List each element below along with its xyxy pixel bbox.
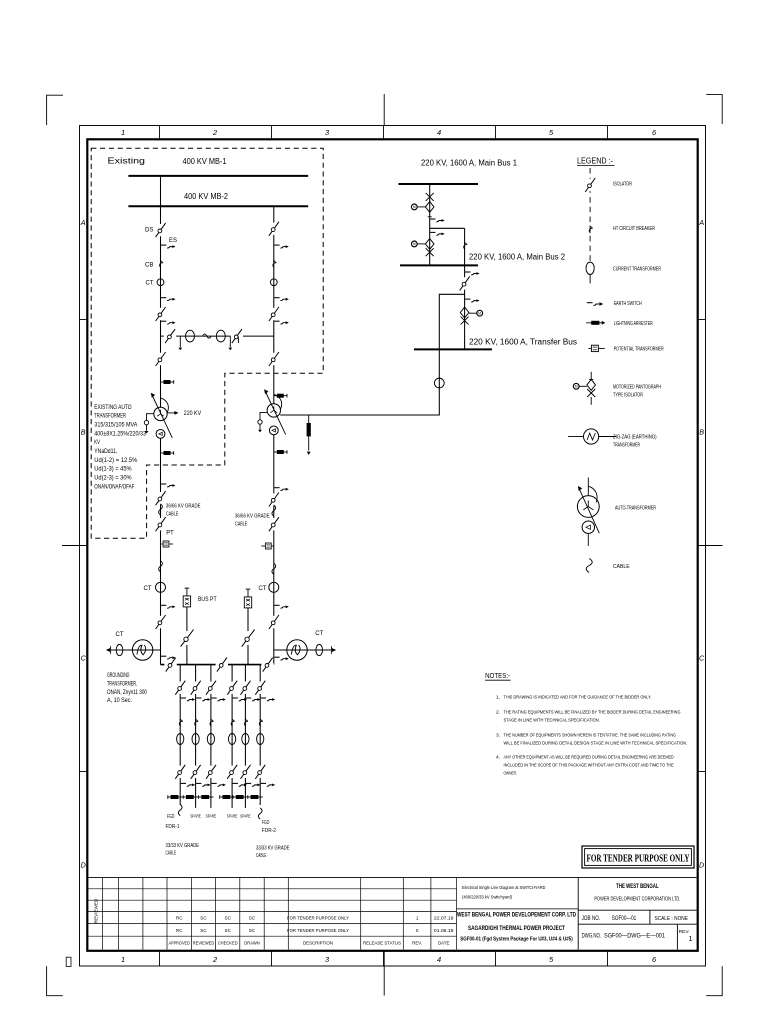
isolator feeder 4 (upper) — [231, 682, 233, 694]
isolator (right feeder top) — [273, 223, 275, 235]
svg-text:SPARE: SPARE — [206, 814, 217, 819]
isolator (right feeder below tie) — [273, 353, 275, 365]
earth switch above P3 — [465, 298, 470, 300]
svg-text:FGD: FGD — [167, 814, 175, 820]
lightning arrester (right feeder, above transformer) — [274, 395, 287, 397]
lightning arrester feeder 5 — [233, 796, 248, 798]
isolator on tie line (left) — [164, 335, 176, 337]
lightning arrester (left feeder, above transformer) — [161, 381, 174, 383]
bus 220 KV Transfer Bus — [414, 348, 492, 350]
zone tick marks top edge — [159, 126, 161, 140]
isolator (left feeder mid) — [159, 308, 161, 320]
current transformer feeder 6 — [257, 734, 264, 745]
title cell: company — [577, 877, 579, 949]
svg-text:CABLE: CABLE — [613, 564, 630, 570]
svg-text:CT: CT — [146, 280, 154, 287]
svg-text:Ud(2-3) = 30%: Ud(2-3) = 30% — [94, 474, 132, 481]
breaker tick on second riser — [464, 242, 468, 249]
svg-text:SC: SC — [249, 916, 256, 921]
svg-text:A, 10 Sec.: A, 10 Sec. — [107, 698, 132, 704]
stamp FOR TENDER PURPOSE ONLY — [582, 846, 694, 868]
220 KV arrow stub of T1 — [167, 412, 176, 414]
svg-text:FDR-1: FDR-1 — [166, 824, 180, 830]
svg-text:2: 2 — [212, 128, 217, 137]
svg-text:A: A — [698, 218, 704, 227]
svg-text:SC: SC — [200, 928, 207, 933]
svg-text:THE RATING EQUIPMENTS WILL BE: THE RATING EQUIPMENTS WILL BE FINALIZED … — [504, 710, 681, 716]
legend motorized pantograph isolator symbol — [590, 372, 592, 380]
tap changer symbol of T1 — [147, 414, 154, 421]
zone tick marks bottom edge — [159, 951, 161, 967]
earth switch feeder 1 (lower) — [181, 782, 186, 784]
isolator feeder 3 (lower) — [210, 766, 212, 778]
svg-text:DS: DS — [145, 227, 154, 234]
earth switch feeder 4 (lower) — [233, 782, 238, 784]
lightning arrester feeder 1 — [168, 796, 183, 798]
earth switch below T1 — [161, 483, 166, 485]
svg-text:ONAN/ONAF/OFAF: ONAN/ONAF/OFAF — [94, 483, 134, 490]
svg-text:CHECKED: CHECKED — [218, 940, 238, 946]
svg-text:THIS DRAWING IS INDICATED AND: THIS DRAWING IS INDICATED AND FOR THE GU… — [504, 695, 652, 701]
svg-text:Existing: Existing — [108, 157, 146, 166]
current transformer feeder 2 — [192, 734, 199, 745]
svg-text:FOR TENDER PURPOSE ONLY: FOR TENDER PURPOSE ONLY — [587, 853, 690, 864]
current transformer grounding left — [116, 644, 123, 655]
sheet center crop mark top — [383, 94, 385, 126]
current transformer feeder 4 — [229, 734, 236, 745]
earth switch feeder 5 (lower) — [246, 782, 251, 784]
svg-text:2: 2 — [212, 955, 217, 964]
vertical label REVIEWED — [93, 898, 98, 923]
isolator DS — [159, 224, 161, 236]
svg-text:HT CIRCUIT BREAKER: HT CIRCUIT BREAKER — [613, 226, 655, 232]
current transformer on 220kV riser — [434, 378, 444, 388]
isolator feeder 5 (upper) — [244, 682, 246, 694]
current transformer right 33kV — [269, 582, 279, 592]
isolator below bus PT left — [186, 631, 188, 645]
lightning arrester below T2 — [274, 451, 287, 453]
svg-text:SC: SC — [225, 916, 232, 921]
title cell: job no / scale — [578, 909, 696, 911]
isolator below T2 (upper) — [273, 493, 275, 505]
current transformer CT (left feeder) — [157, 279, 164, 286]
isolator below T2 (lower) — [273, 518, 275, 530]
svg-text:DWG.NO.: DWG.NO. — [582, 934, 602, 940]
svg-text:SPARE: SPARE — [240, 814, 251, 819]
earth switch below P1 — [430, 218, 435, 220]
svg-text:0: 0 — [416, 928, 419, 933]
svg-text:AUTO-TRANSFORMER: AUTO-TRANSFORMER — [615, 506, 656, 512]
svg-text:THE WEST BENGAL: THE WEST BENGAL — [616, 883, 659, 890]
svg-text:400 KV MB-2: 400 KV MB-2 — [184, 191, 228, 201]
svg-text:Ud(1-2) = 12.5%: Ud(1-2) = 12.5% — [94, 457, 138, 464]
isolator below T1 (upper) — [159, 492, 161, 504]
svg-text:POTENTIAL TRANSFORMER: POTENTIAL TRANSFORMER — [614, 346, 664, 352]
isolator feeder 6 (upper) — [259, 682, 261, 694]
svg-text:220 KV: 220 KV — [184, 410, 202, 417]
svg-text:4: 4 — [437, 955, 441, 964]
sheet corner crop mark top-right — [706, 95, 722, 124]
lightning arrester below T1 — [161, 452, 174, 454]
svg-text:REVIEWED: REVIEWED — [193, 940, 215, 946]
lightning arrester with earth arrow on 220kV line — [308, 415, 310, 423]
circuit breaker CB — [160, 260, 164, 267]
svg-text:RC: RC — [176, 928, 183, 933]
bus 400 KV MB-2 — [128, 205, 308, 207]
title block vertical lines (left tables) — [101, 877, 103, 949]
lightning arrester feeder 4 — [220, 796, 235, 798]
svg-text:33/33 KV GRADE: 33/33 KV GRADE — [166, 843, 200, 849]
wire 33kV feeder 5 vertical — [244, 665, 246, 808]
svg-text:CURRENT TRANSFORMER: CURRENT TRANSFORMER — [613, 266, 661, 272]
svg-text:1: 1 — [121, 128, 125, 137]
earth switch feeder 2 (lower) — [196, 782, 201, 784]
svg-text:DESCRIPTION: DESCRIPTION — [303, 940, 333, 946]
earth switch left at bus corner — [161, 655, 166, 657]
svg-text:SGF00—DWG—E—001: SGF00—DWG—E—001 — [604, 934, 666, 940]
wire jog to second riser — [430, 227, 465, 229]
cable squiggle left (lower) — [159, 561, 163, 572]
svg-text:RC: RC — [176, 916, 183, 921]
lightning arrester feeder 6 — [248, 796, 263, 798]
isolator feeder 2 (upper) — [194, 682, 196, 694]
sheet corner crop mark top-left — [47, 95, 63, 125]
current transformer feeder 3 — [207, 734, 214, 745]
svg-text:2.: 2. — [496, 710, 500, 716]
wire right 400kV feeder vertical — [273, 206, 275, 403]
bus 400 KV MB-1 — [128, 175, 308, 177]
wire 33kV feeder 3 vertical — [210, 665, 212, 808]
svg-text:ANY OTHER EQUIPMENT AS WILL BE: ANY OTHER EQUIPMENT AS WILL BE REQUIRED … — [504, 755, 675, 761]
bus PT right — [246, 588, 251, 590]
svg-text:A: A — [80, 218, 86, 227]
circuit breaker feeder 5 — [244, 719, 248, 726]
isolator feeder 3 (upper) — [210, 682, 212, 694]
svg-text:220 KV, 1600 A, Transfer Bus: 220 KV, 1600 A, Transfer Bus — [469, 338, 577, 347]
earth switch left 33kV — [161, 604, 166, 606]
circuit breaker (right feeder) — [273, 260, 277, 267]
bus 33 kV — [161, 664, 274, 666]
cable squiggle feeder 1 — [178, 804, 182, 815]
wire 33kV feeder 1 vertical — [179, 665, 181, 805]
earth switch feeder 6 (lower) — [261, 782, 266, 784]
earth switch feeder 3 (upper) — [211, 697, 216, 699]
sheet center crop mark bottom — [383, 951, 385, 996]
svg-text:1: 1 — [688, 934, 692, 943]
svg-text:APPROVED: APPROVED — [168, 940, 190, 946]
cable squiggle below T1 — [159, 504, 163, 515]
Existing area dashed boundary — [91, 148, 323, 538]
isolator below Main Bus 2 — [463, 277, 465, 289]
earth switch (left feeder upper) — [161, 244, 166, 246]
earth switch (right feeder lower) — [274, 320, 279, 322]
wire bus coupler vertical — [429, 184, 431, 265]
earthing stub with arrow (tie line left) — [179, 336, 181, 347]
svg-text:FGD: FGD — [262, 820, 270, 826]
svg-text:36/66 KV GRADE: 36/66 KV GRADE — [235, 514, 270, 520]
legend auto-transformer symbol — [587, 478, 589, 496]
svg-text:EARTH SWITCH: EARTH SWITCH — [614, 301, 642, 307]
svg-text:CT: CT — [144, 585, 152, 592]
cable squiggle right (lower) — [272, 563, 276, 574]
isolator on 33kV bus (left) — [164, 663, 176, 665]
svg-text:1: 1 — [416, 916, 419, 921]
svg-text:3.: 3. — [496, 733, 500, 739]
earth switch feeder 3 (lower) — [211, 782, 216, 784]
svg-text:GROUNDING: GROUNDING — [107, 673, 130, 679]
title cell: drawing title — [457, 908, 579, 910]
svg-text:33/33 KV GRADE: 33/33 KV GRADE — [256, 846, 290, 852]
wire below transformer T2 — [273, 435, 275, 665]
tap changer symbol of T2 — [260, 412, 267, 419]
svg-text:CABLE: CABLE — [256, 853, 267, 859]
isolator below bus PT right — [247, 631, 249, 645]
wire second riser vertical — [464, 228, 466, 349]
svg-text:M: M — [478, 311, 481, 315]
svg-text:CT: CT — [259, 585, 267, 592]
wire left 400kV feeder vertical — [160, 176, 162, 407]
svg-text:B: B — [81, 428, 86, 437]
svg-text:4: 4 — [437, 128, 441, 137]
svg-text:YNaDd11,: YNaDd11, — [94, 448, 117, 455]
svg-text:(400/220/33 kV Switchyard): (400/220/33 kV Switchyard) — [462, 894, 512, 900]
title block horizontal lines — [87, 876, 696, 878]
svg-text:CB: CB — [145, 261, 154, 268]
cable squiggle on tie line — [203, 334, 212, 338]
svg-text:FDR-2: FDR-2 — [262, 828, 276, 834]
svg-text:400 KV MB-1: 400 KV MB-1 — [183, 156, 227, 166]
wire below transformer T1 — [160, 439, 162, 665]
svg-text:STAGE IN LINE WITH TECHNICAL S: STAGE IN LINE WITH TECHNICAL SPECIFICATI… — [504, 718, 600, 724]
current transformer left 33kV — [156, 582, 166, 592]
legend earth switch symbol — [587, 302, 593, 304]
svg-text:SGF00-01 (Fgd System Package F: SGF00-01 (Fgd System Package For U#3, U#… — [460, 936, 573, 942]
earth switch (left feeder mid) — [161, 297, 166, 299]
svg-text:C: C — [699, 654, 705, 663]
legend isolator symbol — [589, 179, 591, 191]
circuit breaker feeder 3 — [210, 719, 214, 726]
svg-text:LIGHTNING ARRESTER: LIGHTNING ARRESTER — [614, 321, 653, 327]
earth switch feeder 6 (upper) — [261, 697, 266, 699]
zig-zag grounding transformer right — [287, 640, 307, 660]
svg-text:LEGEND :-: LEGEND :- — [577, 156, 613, 165]
earth switch (left feeder lower) — [161, 320, 166, 322]
svg-text:KV: KV — [94, 439, 100, 446]
svg-text:MOTORIZED PANTOGRAPH: MOTORIZED PANTOGRAPH — [613, 384, 661, 390]
svg-text:TRANSFORMER: TRANSFORMER — [94, 413, 126, 420]
earth switch above P2 — [430, 231, 435, 233]
svg-text:SPARE: SPARE — [227, 814, 238, 819]
svg-text:SC: SC — [225, 928, 232, 933]
potential transformer PT right — [271, 545, 274, 547]
legend zig-zag transformer symbol — [568, 436, 584, 438]
potential transformer PT left — [161, 543, 164, 545]
earth switch feeder 5 (upper) — [246, 697, 251, 699]
svg-text:TYPE ISOLATOR: TYPE ISOLATOR — [613, 392, 643, 398]
wire grounding transformer branch right — [274, 649, 331, 651]
cable squiggle feeder 6 — [258, 808, 262, 819]
earth switch (right feeder upper) — [274, 244, 279, 246]
svg-text:M: M — [413, 205, 416, 209]
svg-text:RELEASE STATUS: RELEASE STATUS — [363, 940, 401, 946]
circuit breaker feeder 6 — [259, 719, 263, 726]
legend lightning arrester symbol — [586, 322, 602, 324]
svg-text:Electrical Single Line Diagram: Electrical Single Line Diagram at SWITCH… — [462, 885, 546, 891]
svg-text:220 KV, 1600 A, Main Bus 2: 220 KV, 1600 A, Main Bus 2 — [469, 253, 565, 262]
wire grounding transformer branch left — [111, 649, 161, 651]
svg-text:1: 1 — [121, 955, 125, 964]
isolator (left feeder below tie) — [159, 353, 161, 365]
legend HT circuit breaker symbol — [589, 226, 593, 233]
wire 33kV feeder 2 vertical — [195, 665, 197, 808]
earth switch feeder 2 (upper) — [196, 697, 201, 699]
svg-text:220 KV, 1600 A, Main Bus 1: 220 KV, 1600 A, Main Bus 1 — [421, 159, 517, 168]
lightning arrester feeder 2 — [183, 796, 198, 798]
svg-text:CT: CT — [315, 630, 323, 637]
svg-text:CT: CT — [116, 631, 124, 638]
circuit breaker feeder 1 — [179, 719, 183, 726]
isolator right 33kV — [273, 616, 275, 628]
current transformer grounding right — [316, 644, 323, 655]
earth switch below Main Bus 2 — [465, 271, 470, 273]
svg-text:SPARE: SPARE — [190, 814, 201, 819]
current transformer on tie line (left) — [186, 330, 195, 342]
svg-text:01.08.18: 01.08.18 — [434, 928, 454, 933]
grounding arrow left — [106, 648, 110, 652]
svg-text:POWER DEVELOPMENT CORPORATION: POWER DEVELOPMENT CORPORATION LTD. — [594, 896, 680, 902]
svg-text:NOTES:-: NOTES:- — [485, 671, 510, 680]
svg-text:22.07.19: 22.07.19 — [434, 916, 454, 921]
isolator feeder 2 (lower) — [194, 766, 196, 778]
circuit breaker feeder 4 — [231, 719, 235, 726]
isolator below T1 (lower) — [159, 518, 161, 530]
svg-text:REV.: REV. — [412, 940, 422, 945]
svg-text:B: B — [699, 428, 704, 437]
motorized pantograph isolator P1 — [426, 193, 434, 201]
current transformer feeder 1 — [177, 734, 184, 745]
lightning arrester feeder 3 — [199, 796, 214, 798]
sheet corner crop mark bottom-right — [706, 966, 722, 995]
svg-text:JOB NO.: JOB NO. — [582, 916, 601, 922]
legend dashed stem — [589, 168, 591, 262]
svg-text:PT: PT — [166, 529, 174, 536]
isolator on 33kV bus (right) — [261, 663, 273, 665]
svg-text:ZIG-ZAG (EARTHING): ZIG-ZAG (EARTHING) — [613, 435, 657, 441]
earth switch feeder 1 (upper) — [181, 697, 186, 699]
svg-text:M: M — [413, 242, 416, 246]
svg-text:D: D — [81, 861, 86, 870]
auto-transformer T2 — [267, 404, 280, 417]
svg-text:WEST BENGAL POWER DEVELOPEMENT: WEST BENGAL POWER DEVELOPEMENT CORP. LTD — [457, 912, 576, 919]
auto-transformer T1 (existing) — [154, 407, 167, 420]
motorized pantograph isolator P2 — [425, 239, 434, 250]
wire 400kV tie line — [161, 335, 274, 337]
earth switch right at bus corner — [274, 656, 279, 658]
zone tick marks left edge — [80, 319, 88, 321]
svg-text:SCALE : NONE: SCALE : NONE — [654, 916, 688, 922]
current transformer (right feeder) — [270, 279, 277, 286]
sheet corner crop mark bottom-left — [47, 966, 63, 995]
earth switch below T2 — [274, 487, 279, 489]
wire 33kV feeder 6 vertical — [259, 665, 261, 805]
svg-text:REVIEWED: REVIEWED — [93, 898, 98, 923]
svg-text:SGF00—01: SGF00—01 — [612, 916, 637, 922]
isolator (right feeder mid) — [273, 308, 275, 320]
svg-text:Ud(1-3) = 45%: Ud(1-3) = 45% — [94, 466, 132, 473]
svg-text:TRANSFORMER: TRANSFORMER — [613, 443, 640, 449]
motorized pantograph isolator P3 — [460, 307, 469, 318]
svg-text:FOR TENDER PURPOSE ONLY: FOR TENDER PURPOSE ONLY — [287, 928, 350, 933]
outer thin border — [80, 126, 706, 967]
earth switch right 33kV — [274, 604, 279, 606]
svg-text:315/315/105 MVA: 315/315/105 MVA — [94, 422, 138, 429]
svg-text:CABLE: CABLE — [166, 851, 177, 857]
circuit breaker feeder 2 — [195, 719, 199, 726]
legend current transformer symbol — [586, 262, 594, 274]
sheet small square mark bottom-left — [66, 957, 71, 966]
svg-text:ES: ES — [169, 237, 177, 244]
cable squiggle below T2 — [272, 505, 276, 516]
isolator left 33kV — [159, 616, 161, 628]
svg-text:ONAN, Znyn11 300: ONAN, Znyn11 300 — [107, 690, 148, 696]
svg-text:ISOLATOR: ISOLATOR — [613, 182, 632, 188]
zig-zag grounding transformer left — [132, 640, 152, 660]
wire 33kV feeder 4 vertical — [231, 665, 233, 808]
svg-text:36/66 KV GRADE: 36/66 KV GRADE — [166, 503, 201, 509]
svg-text:INCLUDED IN THE SCOPE OF THIS: INCLUDED IN THE SCOPE OF THIS PACKAGE WI… — [504, 763, 675, 769]
svg-text:SC: SC — [249, 928, 256, 933]
bus 220 KV Main Bus 2 — [400, 264, 478, 266]
zone tick marks right edge — [698, 319, 706, 321]
current transformer on tie line (right) — [216, 330, 225, 342]
inner thick border — [87, 139, 697, 951]
svg-text:EXISTING AUTO: EXISTING AUTO — [94, 404, 131, 411]
svg-text:4.: 4. — [496, 755, 500, 761]
legend cable symbol — [586, 559, 592, 573]
earthing stub with arrow (tie line right) — [229, 336, 231, 347]
bus 220 KV Main Bus 1 — [399, 183, 479, 185]
earth switch feeder 4 (upper) — [233, 697, 238, 699]
svg-text:SAGARDIGHI THERMAL POWER PROJE: SAGARDIGHI THERMAL POWER PROJECT — [468, 925, 565, 932]
isolator feeder 4 (lower) — [231, 766, 233, 778]
earth switch (right feeder mid) — [274, 297, 279, 299]
svg-text:OWNER.: OWNER. — [504, 771, 517, 777]
svg-text:M: M — [575, 385, 578, 389]
isolator feeder 6 (lower) — [259, 766, 261, 778]
tick below P1 — [428, 216, 432, 218]
legend potential transformer symbol — [588, 347, 591, 349]
svg-text:D: D — [699, 861, 704, 870]
isolator on 33kV bus (middle) — [216, 663, 228, 665]
svg-text:1.: 1. — [496, 695, 500, 701]
wire T2 220kV connection to yard — [280, 294, 464, 415]
title cell: dwg no / rev — [578, 923, 696, 925]
isolator on tie line (right) — [231, 335, 243, 337]
svg-text:TRANSFORMER,: TRANSFORMER, — [107, 682, 137, 688]
isolator feeder 5 (lower) — [244, 766, 246, 778]
svg-text:FOR TENDER PURPOSE ONLY: FOR TENDER PURPOSE ONLY — [287, 916, 350, 921]
svg-text:WILL BE FINALIZED DURING DETAI: WILL BE FINALIZED DURING DETAIL DESIGN S… — [504, 741, 688, 747]
svg-text:SC: SC — [200, 916, 207, 921]
svg-text:DRAWN: DRAWN — [244, 940, 260, 946]
svg-text:CABLE: CABLE — [235, 522, 248, 528]
svg-text:400±8X1.25%/220/33: 400±8X1.25%/220/33 — [94, 430, 146, 437]
svg-text:THE NUMBER OF EQUIPMENTS SHOWN: THE NUMBER OF EQUIPMENTS SHOWN HEREIN IS… — [504, 733, 677, 739]
isolator feeder 1 (upper) — [179, 682, 181, 694]
svg-text:CABLE: CABLE — [166, 511, 179, 517]
current transformer feeder 5 — [242, 734, 249, 745]
svg-text:DATE: DATE — [438, 940, 449, 945]
